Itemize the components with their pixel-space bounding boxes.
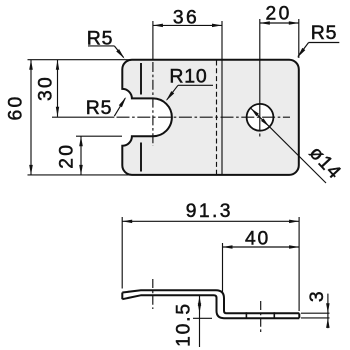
svg-text:91.3: 91.3 bbox=[186, 201, 233, 222]
svg-text:20: 20 bbox=[265, 3, 291, 24]
svg-text:36: 36 bbox=[173, 7, 199, 28]
svg-text:30: 30 bbox=[36, 75, 57, 101]
svg-text:40: 40 bbox=[245, 228, 270, 249]
svg-text:3: 3 bbox=[307, 290, 328, 303]
svg-text:R5: R5 bbox=[87, 27, 114, 49]
svg-text:10.5: 10.5 bbox=[174, 302, 195, 347]
svg-text:R5: R5 bbox=[86, 97, 113, 119]
svg-text:R5: R5 bbox=[311, 22, 338, 44]
svg-text:R10: R10 bbox=[169, 66, 207, 88]
svg-text:20: 20 bbox=[57, 143, 78, 169]
svg-text:60: 60 bbox=[5, 94, 26, 120]
